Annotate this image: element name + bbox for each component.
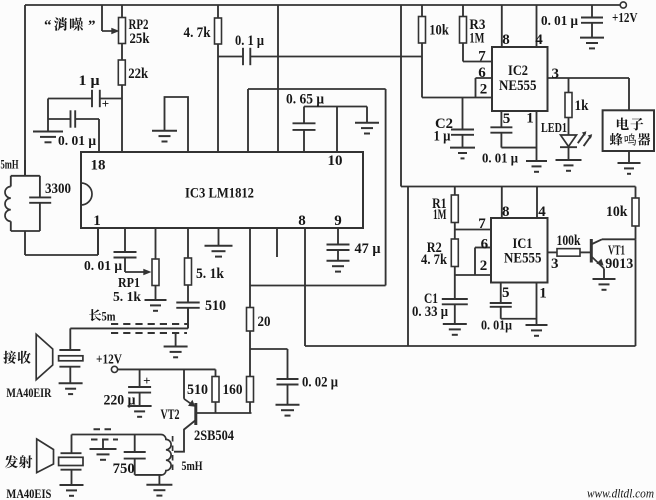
svg-text:1 μ: 1 μ bbox=[79, 73, 101, 89]
svg-text:4. 7k: 4. 7k bbox=[421, 252, 448, 268]
wire IC3 pin stub bbox=[276, 228, 278, 257]
capacitor 0.65u bbox=[304, 106, 367, 108]
svg-text:IC3 LM1812: IC3 LM1812 bbox=[185, 186, 254, 202]
svg-text:1: 1 bbox=[539, 286, 547, 302]
ground 0.02u bbox=[276, 404, 300, 406]
capacitor C1 0.33u bbox=[454, 275, 456, 299]
ground C2 bbox=[450, 147, 475, 149]
wire +12V top rail bbox=[25, 4, 621, 6]
ground C1 bbox=[443, 323, 467, 325]
capacitor 0.01u supply bbox=[591, 5, 593, 18]
svg-text:4: 4 bbox=[538, 204, 546, 220]
ground MA40EIS bbox=[60, 484, 84, 486]
svg-text:RP1: RP1 bbox=[118, 276, 140, 291]
svg-text:5: 5 bbox=[502, 285, 510, 301]
svg-text:0. 01 μ: 0. 01 μ bbox=[58, 134, 96, 149]
svg-text:47 μ: 47 μ bbox=[355, 241, 382, 257]
wire IC2 pin8 to rail bbox=[501, 5, 503, 47]
svg-text:0. 1 μ: 0. 1 μ bbox=[235, 33, 265, 49]
svg-text:5m: 5m bbox=[102, 309, 116, 324]
pin 6 wire IC1 bbox=[475, 247, 491, 249]
ground 0.01u supply bbox=[580, 37, 604, 39]
ground for 0.65u bbox=[366, 107, 368, 123]
svg-text:7: 7 bbox=[478, 49, 486, 65]
svg-text:0. 01 μ: 0. 01 μ bbox=[84, 259, 122, 274]
svg-text:IC2: IC2 bbox=[508, 63, 528, 79]
transistor VT2 2SB504 bbox=[183, 369, 185, 398]
svg-text:5mH: 5mH bbox=[182, 458, 203, 473]
svg-text:100k: 100k bbox=[557, 233, 582, 249]
svg-text:“: “ bbox=[44, 18, 52, 34]
potentiometer RP1 5.1k bbox=[155, 228, 157, 259]
svg-text:5mH: 5mH bbox=[1, 158, 19, 172]
svg-text:160: 160 bbox=[223, 382, 243, 398]
speaker transmitter bbox=[37, 439, 54, 473]
pin 7 wire IC2 bbox=[463, 61, 492, 63]
pin 7 wire IC1 bbox=[455, 229, 491, 231]
ground for 1u/0.01u bbox=[47, 99, 49, 132]
capacitor 750 bbox=[134, 435, 136, 453]
pin 2 bracket IC1 bbox=[474, 248, 476, 276]
capacitor 1u bbox=[48, 98, 92, 100]
svg-text:8: 8 bbox=[502, 32, 510, 48]
svg-text:+: + bbox=[143, 373, 150, 388]
svg-text:22k: 22k bbox=[128, 66, 149, 82]
inductor 5mH receiver tank bbox=[24, 160, 26, 176]
wire long vertical to R2 node bbox=[385, 89, 387, 286]
svg-text:3: 3 bbox=[551, 256, 559, 272]
ground LED bbox=[556, 159, 582, 161]
svg-text:1: 1 bbox=[93, 213, 101, 229]
svg-text:8: 8 bbox=[298, 213, 306, 229]
svg-text:2: 2 bbox=[480, 82, 488, 98]
timer IC2 NE555 box bbox=[492, 47, 548, 111]
ground cable shield transmitter bbox=[102, 440, 104, 450]
resistor R3 1M bbox=[462, 5, 464, 17]
svg-text:0. 33 μ: 0. 33 μ bbox=[412, 304, 449, 320]
resistor R2 4.7k bbox=[451, 239, 458, 267]
wire junction to long vertical bbox=[250, 285, 386, 287]
transducer MA40EIS bbox=[71, 435, 73, 454]
svg-text:+12V: +12V bbox=[96, 353, 122, 368]
svg-text:6: 6 bbox=[481, 237, 489, 253]
svg-text:20: 20 bbox=[258, 314, 271, 330]
svg-text:NE555: NE555 bbox=[499, 78, 537, 94]
resistor 20 bbox=[247, 308, 254, 332]
svg-text:1: 1 bbox=[526, 111, 534, 127]
capacitor 0.01u IC1 pin5 bbox=[500, 283, 502, 304]
capacitor C2 1u bbox=[462, 98, 464, 130]
svg-text:1M: 1M bbox=[433, 207, 447, 223]
svg-text:5. 1k: 5. 1k bbox=[196, 266, 225, 282]
svg-text:4: 4 bbox=[535, 32, 543, 48]
wire branch to 0.02u bbox=[250, 348, 288, 350]
svg-text:8: 8 bbox=[502, 204, 510, 220]
svg-text:9013: 9013 bbox=[605, 256, 633, 272]
svg-text:10: 10 bbox=[328, 153, 343, 169]
transducer MA40EIR bbox=[59, 349, 80, 351]
wire IC1 pin4 to rail bbox=[536, 187, 538, 219]
LED flash arrows bbox=[578, 133, 586, 144]
ground IC1 pin1 bbox=[536, 283, 538, 326]
svg-text:1M: 1M bbox=[469, 31, 484, 47]
wire IC3 pin to 0.65u node bbox=[247, 89, 249, 152]
wire RP2 wiper arrow bbox=[102, 30, 113, 32]
wire pin3 to buzzer bbox=[628, 78, 630, 110]
svg-text:510: 510 bbox=[187, 382, 208, 398]
svg-text:MA40EIR: MA40EIR bbox=[6, 385, 51, 400]
svg-text:10k: 10k bbox=[429, 23, 449, 39]
svg-text:6: 6 bbox=[478, 65, 486, 81]
wire IC3 pin1 lead bbox=[97, 228, 99, 255]
svg-text:5. 1k: 5. 1k bbox=[113, 290, 141, 305]
pin 6 wire IC2 bbox=[476, 77, 493, 79]
svg-text:LED1: LED1 bbox=[541, 120, 567, 135]
svg-text:7: 7 bbox=[478, 216, 486, 232]
capacitor 0.1u bbox=[218, 56, 243, 58]
svg-text:2SB504: 2SB504 bbox=[194, 428, 234, 444]
capacitor 3300 tank bbox=[39, 176, 41, 198]
capacitor 0.01u IC2 pin5 bbox=[500, 111, 502, 127]
svg-text:0. 02 μ: 0. 02 μ bbox=[302, 375, 339, 391]
wire bottom signal rail bbox=[305, 345, 636, 347]
svg-text:+: + bbox=[102, 96, 109, 111]
wire VT2 base line bbox=[197, 412, 252, 414]
wire IC1 pin8 to rail bbox=[501, 187, 503, 219]
svg-text:5: 5 bbox=[503, 111, 511, 127]
cable shield dashes bbox=[111, 323, 187, 325]
cable shield dashes transmitter bbox=[94, 428, 115, 430]
svg-text:”: ” bbox=[88, 18, 96, 34]
svg-text:NE555: NE555 bbox=[504, 251, 542, 267]
svg-text:MA40EIS: MA40EIS bbox=[6, 486, 51, 500]
pin 3 wire IC1 bbox=[548, 251, 558, 253]
wire IC2 pin4 to rail bbox=[536, 5, 538, 47]
svg-text:18: 18 bbox=[91, 158, 106, 174]
resistor 4.7k bbox=[217, 5, 219, 18]
ground 47u bbox=[327, 260, 350, 262]
wire IC3 pin8 to bottom rail bbox=[304, 228, 306, 346]
wire tank bottom to IC3 pin1 bbox=[24, 231, 26, 255]
transformer core dashes bbox=[172, 436, 174, 470]
capacitor 47u bbox=[337, 228, 339, 245]
svg-text:VT2: VT2 bbox=[161, 407, 180, 423]
svg-text:510: 510 bbox=[205, 298, 226, 314]
wire RP1 wiper arrow bbox=[125, 271, 145, 273]
svg-text:1 μ: 1 μ bbox=[434, 129, 452, 145]
wire IC3 pin18 lead bbox=[98, 119, 100, 152]
capacitor 220u bbox=[139, 369, 141, 387]
svg-text:750: 750 bbox=[113, 461, 135, 477]
wire RP2 wiper from rail bbox=[101, 5, 103, 31]
svg-text:0. 65 μ: 0. 65 μ bbox=[286, 92, 325, 108]
wire IC3 pin to 20 resistor bbox=[249, 228, 251, 308]
wire IC1 supply rail bbox=[401, 186, 636, 188]
ground IC3 bottom pin bbox=[218, 228, 220, 246]
transformer primary 5mH bbox=[72, 434, 162, 436]
node +12V lower terminal bbox=[111, 366, 117, 372]
ground buzzer bbox=[628, 151, 630, 163]
pin 3 wire IC2 bbox=[548, 77, 630, 79]
ground 220u bbox=[128, 405, 152, 407]
wire IC3 top pin to rail bbox=[277, 5, 279, 152]
svg-text:0. 01 μ: 0. 01 μ bbox=[541, 14, 578, 29]
op-amp IC3 LM1812 box bbox=[81, 152, 363, 228]
potentiometer RP2 bbox=[121, 5, 123, 18]
ground hook IC3 top pin bbox=[165, 97, 189, 152]
buzzer box bbox=[603, 110, 654, 151]
resistor 5.1k bbox=[187, 228, 189, 258]
svg-text:0. 01 μ: 0. 01 μ bbox=[482, 152, 518, 167]
svg-text:9: 9 bbox=[334, 213, 342, 229]
transistor VT1 9013 bbox=[590, 239, 593, 263]
svg-text:3: 3 bbox=[552, 66, 560, 82]
ground VT1 emitter bbox=[593, 278, 616, 280]
resistor 510 VT2 bbox=[215, 369, 217, 376]
ground IC2 pin1 bbox=[536, 111, 538, 161]
svg-text:3300: 3300 bbox=[45, 181, 71, 197]
resistor R1 1M bbox=[454, 187, 456, 196]
wire receiver core bbox=[70, 327, 188, 329]
wire +12V lower rail bbox=[118, 368, 216, 370]
svg-text:www.dltdl.com: www.dltdl.com bbox=[587, 486, 654, 500]
capacitor 0.02u bbox=[277, 378, 299, 380]
ground transformer bbox=[158, 475, 160, 485]
node +12V terminal bbox=[620, 2, 626, 8]
speaker receiver bbox=[36, 334, 53, 379]
svg-text:0. 01μ: 0. 01μ bbox=[481, 319, 512, 334]
resistor 1k bbox=[568, 78, 570, 93]
resistor 22k bbox=[118, 60, 125, 85]
svg-text:25k: 25k bbox=[130, 31, 151, 47]
capacitor 0.01u top-left bbox=[48, 118, 71, 120]
ground RP1 bbox=[145, 299, 167, 301]
svg-text:10k: 10k bbox=[606, 204, 628, 220]
resistor 10k IC2 bbox=[421, 5, 423, 17]
svg-text:4. 7k: 4. 7k bbox=[184, 25, 212, 41]
svg-text:+12V: +12V bbox=[612, 11, 638, 26]
ground MA40EIR bbox=[59, 382, 83, 384]
resistor 10k IC1 bbox=[635, 187, 637, 199]
capacitor 0.01u below IC3 bbox=[124, 228, 126, 252]
resistor 160 bbox=[247, 377, 254, 403]
svg-text:2: 2 bbox=[480, 258, 488, 274]
ground cable shield bbox=[175, 333, 177, 347]
wire left border bbox=[24, 5, 26, 176]
pin 2 bracket IC2 bbox=[475, 78, 477, 98]
resistor 100k bbox=[557, 249, 580, 257]
wire rail to bottom rail bbox=[407, 187, 409, 347]
wire vertical from rail to IC1 rail bbox=[400, 5, 402, 187]
timer IC1 NE555 box bbox=[491, 218, 548, 283]
capacitor 510 bbox=[176, 302, 199, 304]
wire IC3 pin10 to 0.65u node bbox=[336, 107, 338, 153]
svg-text:1k: 1k bbox=[575, 98, 590, 114]
